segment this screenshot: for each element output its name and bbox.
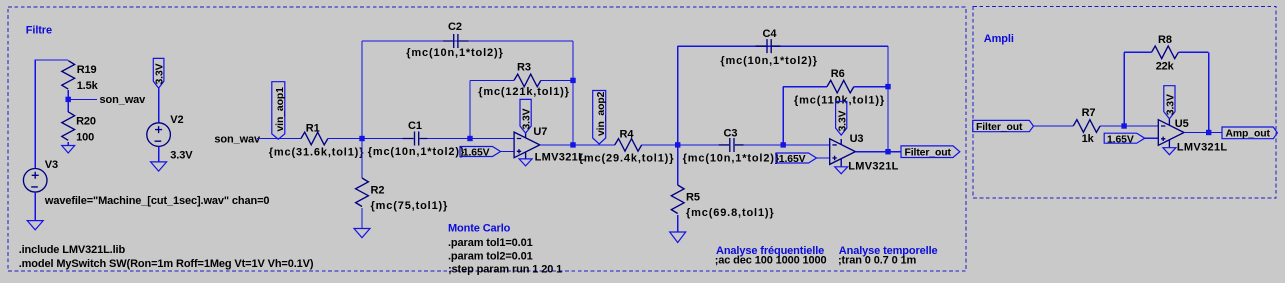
ground under U3 [835, 167, 848, 174]
wire node B up to R3 [469, 80, 471, 138]
net flag 1.65V at U3 + input [776, 153, 817, 165]
ground under V3 [27, 221, 43, 230]
wire R6 left lead [783, 86, 827, 88]
svg-text:{mc(10n,1*tol2)}: {mc(10n,1*tol2)} [406, 47, 503, 59]
svg-text:R6: R6 [831, 68, 845, 80]
wire son_wav to R1 [257, 138, 301, 140]
net flag 1.65V at U5 + input [1104, 133, 1145, 145]
svg-text:R19: R19 [77, 64, 97, 76]
svg-text:3.3V: 3.3V [837, 110, 848, 131]
wire node C down to R5 [677, 145, 679, 185]
node U3 out junction (C4/R6 feedback) [885, 149, 890, 154]
svg-text:son_wav: son_wav [214, 134, 261, 146]
ground under R2 [354, 229, 370, 238]
svg-text:1.5k: 1.5k [77, 80, 99, 92]
node R7/R8 junction [1121, 123, 1126, 128]
resistor R1 [301, 132, 328, 145]
voltage source V2 [147, 114, 184, 146]
svg-text:vin_aop1: vin_aop1 [275, 87, 286, 132]
svg-text:C3: C3 [724, 128, 738, 140]
wire C2 top rail [362, 40, 573, 42]
voltage source V3 [23, 159, 58, 192]
capacitor C2 [443, 21, 469, 48]
wire U7 output to R4 [540, 144, 615, 146]
resistor R3 [514, 74, 541, 87]
wire V3 bottom [34, 192, 36, 221]
resistor R6 [827, 80, 854, 93]
svg-text:C2: C2 [448, 21, 462, 33]
wire R5 bottom [677, 215, 679, 232]
wire R8 down to U5 out node [1208, 52, 1210, 132]
svg-text:Filtre: Filtre [26, 25, 52, 37]
wire R2 bottom [361, 208, 363, 229]
svg-text:3.3V: 3.3V [170, 149, 193, 161]
wire R8 right lead [1178, 51, 1208, 53]
svg-text:.param tol1=0.01: .param tol1=0.01 [448, 237, 533, 249]
wire node A to C1 [362, 138, 403, 140]
svg-text:1.65V: 1.65V [463, 148, 490, 159]
svg-text:3.3V: 3.3V [1166, 94, 1177, 115]
svg-text:.include LMV321L.lib: .include LMV321L.lib [19, 244, 126, 256]
wire node up to R8 [1123, 52, 1125, 126]
svg-text:{mc(69.8,tol1)}: {mc(69.8,tol1)} [686, 207, 775, 219]
node U5 out junction (R8 feedback) [1206, 130, 1211, 135]
wire R7 to U5 inverting input [1100, 125, 1158, 127]
svg-text:100: 100 [76, 131, 94, 143]
svg-text:1k: 1k [1082, 133, 1095, 145]
svg-text:Monte Carlo: Monte Carlo [448, 223, 511, 235]
wire 3.3V flag to V2 top [158, 88, 160, 123]
net flag 1.65V at U7 + input [460, 147, 501, 159]
wire 1.65V to U7 + input [501, 151, 515, 153]
wire R3 right lead [541, 79, 573, 81]
svg-text:C4: C4 [763, 28, 778, 40]
wire R19 bottom to R20 top [67, 90, 69, 112]
svg-text:22k: 22k [1156, 61, 1175, 73]
wire R3 left lead [470, 79, 514, 81]
wire R8 left lead [1124, 51, 1151, 53]
resistor R20 [62, 112, 75, 140]
svg-text:{mc(29.4k,tol1)}: {mc(29.4k,tol1)} [579, 153, 675, 165]
resistor R5 [671, 185, 684, 213]
svg-text:R7: R7 [1082, 107, 1096, 119]
wire R1 to node A [328, 138, 362, 140]
node B junction (C1/R3/U7-) [467, 136, 472, 141]
svg-text:{mc(31.6k,tol1)}: {mc(31.6k,tol1)} [269, 147, 365, 159]
Ampli section dashed frame [973, 7, 1276, 199]
Filtre section dashed frame [8, 7, 966, 271]
op-amp U7 [514, 126, 585, 164]
svg-text:R4: R4 [620, 128, 635, 140]
svg-text:1.65V: 1.65V [779, 154, 806, 165]
ground under R5 [670, 232, 686, 243]
wire C4 right down to R6 node and U3 out [887, 46, 889, 152]
svg-text:.param tol2=0.01: .param tol2=0.01 [448, 250, 533, 262]
svg-text:.model MySwitch SW(Ron=1m Roff: .model MySwitch SW(Ron=1m Roff=1Meg Vt=1… [19, 258, 314, 270]
svg-text:R20: R20 [76, 115, 96, 127]
wire C2 right down to R3 node and U7 out [572, 41, 574, 145]
net flag 3.3V above U3 [836, 102, 849, 136]
op-amp U5 [1158, 118, 1227, 154]
svg-text:R2: R2 [371, 185, 385, 197]
svg-text:Filter_out: Filter_out [905, 148, 952, 159]
wire son_wav stub at R19/R20 node [68, 98, 97, 100]
wire C4 top rail [678, 45, 888, 47]
resistor R4 [615, 139, 642, 152]
svg-text:LMV321L: LMV321L [1177, 142, 1228, 154]
node R6/C4 junction [885, 84, 890, 89]
capacitor C1 [403, 120, 428, 146]
ground under V2 [151, 162, 167, 171]
wire node C up to C4 rail [677, 46, 679, 145]
resistor R19 [62, 61, 75, 90]
net flag 3.3V above V2 [153, 58, 165, 88]
svg-text:LMV321L: LMV321L [848, 161, 899, 173]
svg-text:{mc(75,tol1)}: {mc(75,tol1)} [371, 200, 449, 212]
svg-text:U5: U5 [1175, 118, 1189, 130]
svg-text:R3: R3 [517, 62, 531, 74]
wire node D up to R6 [782, 87, 784, 145]
wire C3 to node D [744, 144, 784, 146]
wire node A up to C2 [361, 41, 363, 139]
svg-text:V3: V3 [45, 159, 58, 171]
wire R4 to node C [642, 144, 678, 146]
svg-text:R5: R5 [686, 192, 700, 204]
node A junction (R1/C1/R2/C2) [359, 136, 364, 141]
port flag Filter_out (input of Ampli) [973, 120, 1034, 132]
node son_wav junction [66, 97, 71, 102]
capacitor C3 [719, 128, 744, 153]
node R3/C2 junction [570, 78, 575, 83]
svg-text:{mc(121k,tol1)}: {mc(121k,tol1)} [478, 86, 570, 98]
wire U5 output to Amp_out [1184, 132, 1222, 134]
svg-text:3.3V: 3.3V [522, 108, 533, 129]
svg-text:Filter_out: Filter_out [976, 122, 1023, 133]
resistor R7 [1073, 120, 1100, 133]
port flag Amp_out [1222, 127, 1277, 140]
svg-text:V2: V2 [170, 114, 183, 126]
svg-text:1.65V: 1.65V [1107, 134, 1134, 145]
wire R6 right lead [854, 86, 888, 88]
wire Filter_out to R7 [1034, 125, 1074, 127]
resistor R8 [1152, 46, 1179, 59]
net flag 3.3V above U7 [520, 99, 533, 133]
svg-text:3.3V: 3.3V [154, 63, 165, 84]
wire V3 top to R19 top [35, 60, 68, 169]
capacitor C4 [756, 28, 781, 53]
svg-text:{mc(110k,tol1)}: {mc(110k,tol1)} [794, 94, 885, 106]
svg-text:{mc(10n,1*tol2)}: {mc(10n,1*tol2)} [720, 55, 817, 67]
svg-text:U3: U3 [850, 133, 864, 145]
svg-text:son_wav: son_wav [100, 94, 147, 106]
node D junction (C3/R6/U3-) [781, 142, 786, 147]
svg-text:;ac dec 100 1000 1000: ;ac dec 100 1000 1000 [715, 254, 827, 266]
wire R20 bottom lead [67, 142, 69, 146]
svg-text:wavefile="Machine_[cut_1sec].w: wavefile="Machine_[cut_1sec].wav" chan=0 [44, 195, 270, 207]
ground under U7 [519, 159, 532, 166]
svg-text:U7: U7 [533, 126, 547, 138]
svg-text:{mc(10n,1*tol2)}: {mc(10n,1*tol2)} [368, 146, 465, 158]
svg-text:C1: C1 [408, 120, 422, 132]
net flag vin_aop2 [593, 91, 607, 145]
wire node D to U3 inverting input [783, 144, 830, 146]
svg-text:R1: R1 [306, 123, 320, 135]
wire node C to C3 [678, 144, 719, 146]
wire V2 bottom [158, 146, 160, 162]
svg-text:Amp_out: Amp_out [1226, 129, 1271, 140]
ground under U5 [1163, 148, 1176, 155]
svg-text:Ampli: Ampli [984, 33, 1014, 45]
net flag 3.3V above U5 [1164, 86, 1177, 119]
wire 1.65V to U3 + input [817, 157, 830, 159]
node U7 out junction (C2/R3 feedback) [570, 142, 575, 147]
node C junction (R4/C3/R5/C4) [675, 142, 680, 147]
svg-text:LMV321L: LMV321L [535, 151, 586, 163]
wire node A down to R2 [361, 139, 363, 179]
svg-text:{mc(10n,1*tol2)}: {mc(10n,1*tol2)} [683, 153, 780, 165]
wire 1.65V to U5 + input [1145, 137, 1159, 139]
op-amp U3 [830, 133, 899, 173]
port flag Filter_out (output of Filtre) [901, 146, 960, 159]
svg-text:vin_aop2: vin_aop2 [596, 91, 607, 136]
resistor R2 [356, 178, 369, 206]
ground under R20 [62, 146, 75, 154]
net flag vin_aop1 [272, 82, 286, 140]
wire U3 output to Filter_out [855, 151, 901, 153]
wire node B to U7 inverting input [470, 138, 514, 140]
svg-text:;tran 0 0.7 0 1m: ;tran 0 0.7 0 1m [838, 254, 917, 266]
svg-text:;step param run 1 20 1: ;step param run 1 20 1 [448, 263, 562, 275]
svg-text:R8: R8 [1158, 34, 1172, 46]
wire C1 to node B [428, 138, 471, 140]
